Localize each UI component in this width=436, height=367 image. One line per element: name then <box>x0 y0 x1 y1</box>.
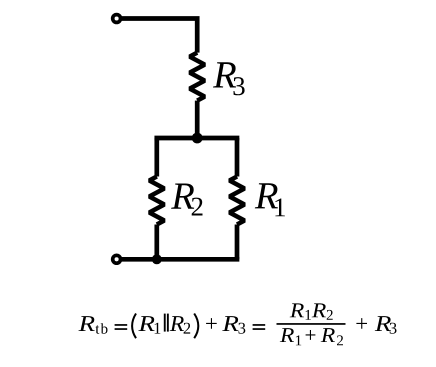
terminal bottom-left open circle <box>113 255 121 263</box>
fraction bar <box>277 323 346 325</box>
equation open paren <box>132 314 136 339</box>
denominator R1 <box>280 328 294 342</box>
resistor R1 <box>230 177 245 225</box>
label R3 <box>213 62 236 87</box>
terminal top-left open circle <box>113 15 121 23</box>
equation term R3 <box>222 316 238 331</box>
numerator R1 <box>290 303 304 317</box>
wire: right branch down to R1 <box>235 138 240 177</box>
equation plus sign <box>206 318 217 329</box>
resistor R2 <box>149 177 164 225</box>
wire: parallel box top horizontal <box>157 136 237 141</box>
denominator R2 <box>321 328 335 342</box>
node A junction dot <box>192 133 203 144</box>
wire: bottom horizontal rail <box>122 257 238 262</box>
numerator R2 <box>312 303 326 317</box>
wire: top horizontal from terminal, corner down to R3 <box>122 19 198 53</box>
wire: left branch down to R2 <box>154 138 159 177</box>
label R1 <box>255 183 278 208</box>
equation term R1 <box>138 316 154 331</box>
equation second equals sign <box>253 324 266 326</box>
wire: R1 bottom to bottom rail <box>235 225 240 260</box>
wire: R2 bottom to bottom rail <box>154 225 159 260</box>
node B junction dot <box>152 254 162 264</box>
wire: R3 bottom to node A <box>195 101 200 138</box>
equation close paren <box>194 314 198 339</box>
equation term R_tb <box>79 316 95 331</box>
equation tail R3 <box>375 316 391 331</box>
label R2 <box>171 184 194 209</box>
equation tail plus sign <box>356 318 367 329</box>
denominator plus sign <box>306 330 316 340</box>
equation parallel bars <box>164 314 166 332</box>
equation equals sign <box>115 324 128 326</box>
equation term R2 <box>170 316 184 331</box>
resistor R3 <box>190 53 205 101</box>
